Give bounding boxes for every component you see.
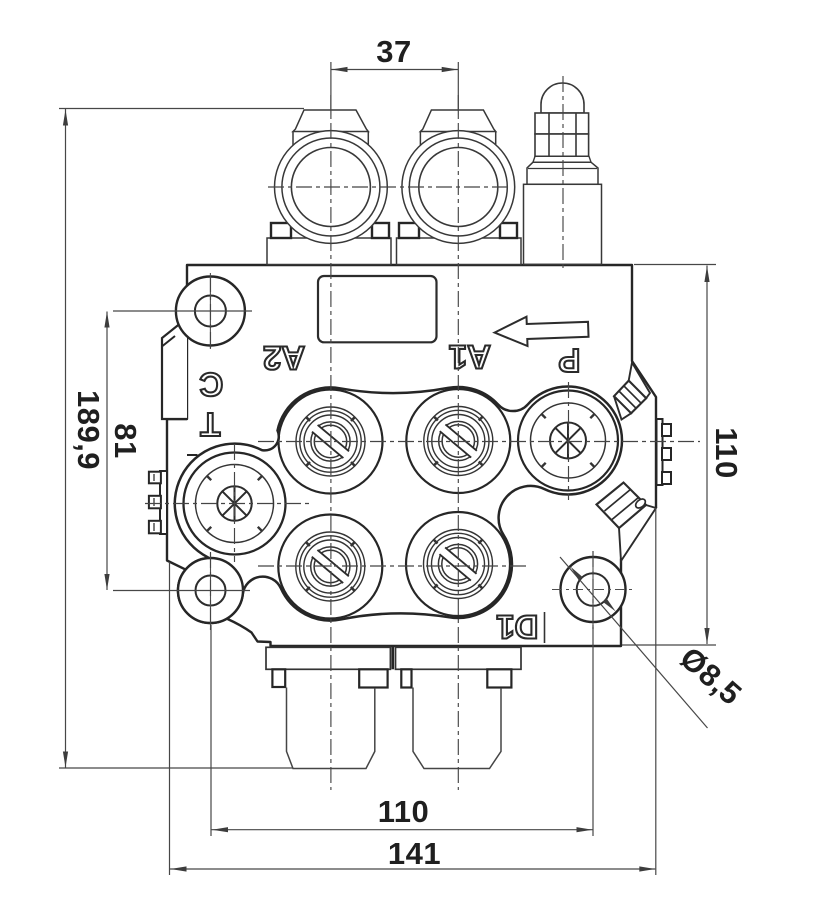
port A2 outer circle — [279, 390, 383, 494]
spool 2 cylinder — [413, 688, 501, 769]
port T outer circle — [184, 453, 286, 555]
port B2 rings — [296, 532, 365, 601]
top-left mounting boss — [176, 277, 245, 346]
dimension 81 — [104, 311, 252, 591]
relief valve main cylinder — [524, 184, 602, 264]
svg-text:D1: D1 — [496, 609, 538, 646]
port A1 rings — [424, 407, 493, 476]
svg-text:A2: A2 — [263, 340, 305, 377]
wedge plug top-right body — [614, 381, 646, 414]
relief valve hex nuts — [535, 113, 589, 134]
svg-text:A1: A1 — [449, 339, 491, 376]
port B1 rings — [424, 530, 493, 599]
dimension 110 right — [622, 265, 744, 646]
raised boss contour blob — [175, 386, 622, 622]
spool 1 cylinder — [287, 688, 375, 769]
section joint line — [187, 454, 198, 456]
spool 1 shoulders — [272, 669, 285, 687]
wedge plug top-right tip — [614, 396, 631, 419]
bottom-left mounting boss — [178, 558, 243, 623]
valve body outline — [167, 265, 656, 646]
top port 2 cap — [420, 110, 495, 132]
svg-text:C: C — [199, 366, 223, 403]
relief valve upper cylinder — [527, 162, 598, 184]
port T — [196, 465, 274, 543]
left side fins boss — [149, 471, 167, 534]
plate chamfer second line — [163, 336, 176, 346]
svg-text:P: P — [558, 342, 580, 379]
top port 1 circles — [275, 131, 388, 244]
flow direction arrow — [494, 315, 589, 348]
svg-text:37: 37 — [376, 34, 411, 69]
bottom-right mounting boss — [561, 557, 626, 622]
wedge plug mid-right body — [597, 483, 647, 529]
left cover plate — [162, 318, 187, 419]
svg-text:189,9: 189,9 — [71, 390, 106, 470]
svg-text:81: 81 — [108, 423, 143, 458]
svg-text:T: T — [200, 406, 220, 443]
svg-text:110: 110 — [709, 427, 744, 479]
dimension 37 — [331, 34, 458, 115]
wedge plug mid-right cone — [619, 505, 656, 561]
port A1 outer circle — [406, 389, 510, 493]
spool 2 shoulders — [401, 669, 411, 687]
port B2 outer circle — [278, 515, 382, 619]
port P — [518, 391, 618, 491]
wedge plug mid-right end ellipse — [634, 497, 647, 510]
svg-text:141: 141 — [388, 836, 441, 871]
dimension 110 bottom — [211, 625, 593, 836]
dimension 141 — [170, 508, 656, 875]
top port bases — [267, 238, 391, 265]
dimension 189,9 — [59, 109, 304, 769]
spool cap plates — [266, 647, 390, 669]
right side fins boss — [657, 419, 672, 485]
top port 2 circles — [402, 131, 515, 244]
wedge plug top-right cone — [629, 363, 650, 399]
top port flanges bold corners — [271, 223, 291, 238]
port B1 outer circle — [406, 512, 510, 616]
centerlines — [268, 186, 512, 188]
dimension diameter 8,5 leader — [560, 557, 748, 728]
top port 1 cap — [293, 110, 368, 132]
svg-text:110: 110 — [378, 794, 430, 829]
port A2 rings — [296, 407, 365, 476]
relief valve collar — [533, 156, 591, 162]
label plate rectangle — [318, 276, 437, 342]
relief valve dome — [541, 83, 584, 113]
